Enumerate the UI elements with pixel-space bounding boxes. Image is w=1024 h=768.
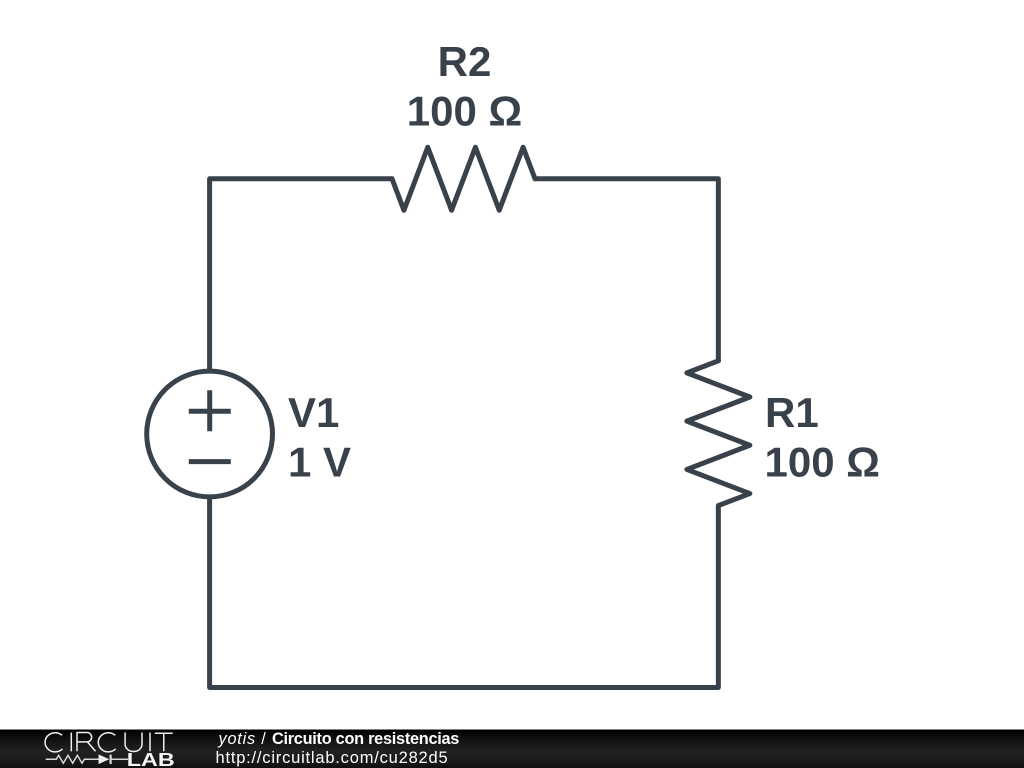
wire from R2 terminal 2 across and down to R1 terminal 1 <box>535 179 718 361</box>
V1 minus sign <box>189 459 231 464</box>
svg-text:LAB: LAB <box>127 750 175 768</box>
wire from R1 terminal 2 down, across bottom, and up to V1 negative terminal <box>210 497 719 688</box>
svg-text:100 Ω: 100 Ω <box>407 87 522 134</box>
CircuitLab logo word CIRCUIT <box>45 733 173 752</box>
svg-text:yotis / Circuito con resistenc: yotis / Circuito con resistencias <box>218 730 460 748</box>
svg-text:R1: R1 <box>765 389 819 436</box>
CircuitLab logo resistor-diode wire <box>46 755 128 764</box>
resistor R2 zigzag body <box>392 147 535 210</box>
svg-text:R2: R2 <box>438 38 492 85</box>
CircuitLab logo diode triangle <box>99 754 110 764</box>
voltage source V1 circle <box>147 371 273 497</box>
svg-text:1 V: 1 V <box>288 439 351 486</box>
svg-text:100 Ω: 100 Ω <box>765 439 880 486</box>
svg-text:V1: V1 <box>288 389 339 436</box>
svg-text:http://circuitlab.com/cu282d5: http://circuitlab.com/cu282d5 <box>216 749 449 767</box>
wire from V1 positive terminal up and across to R2 terminal 1 <box>210 179 392 371</box>
V1 plus sign <box>189 390 231 431</box>
resistor R1 zigzag body <box>687 361 750 506</box>
